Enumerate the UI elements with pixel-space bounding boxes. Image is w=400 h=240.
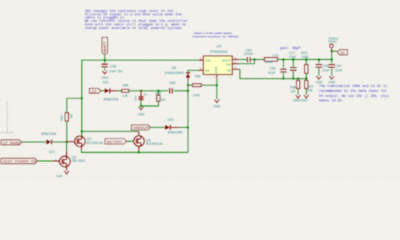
svg-text:SW: SW	[226, 63, 231, 67]
svg-text:1N5819WS: 1N5819WS	[164, 70, 184, 75]
svg-text:10uF 25V: 10uF 25V	[109, 70, 124, 74]
svg-text:R56: R56	[195, 74, 201, 78]
svg-text:GND: GND	[214, 66, 218, 74]
svg-text:22k: 22k	[290, 90, 296, 94]
svg-text:C66: C66	[323, 64, 329, 68]
svg-text:GNDGND: GNDGND	[293, 98, 308, 102]
svg-text:B5819W: B5819W	[168, 130, 183, 135]
svg-text:KEEP_POWER_ON: KEEP_POWER_ON	[3, 160, 37, 164]
svg-text:CP: CP	[92, 89, 98, 93]
svg-text:R65: R65	[122, 83, 128, 87]
svg-text:2N7002: 2N7002	[72, 158, 86, 163]
svg-text:1M: 1M	[161, 98, 166, 102]
svg-text:CB2: CB2	[169, 81, 176, 85]
svg-text:GND: GND	[315, 81, 323, 85]
svg-text:The combination 100k and 13.3k: The combination 100k and 13.3k is	[319, 84, 387, 89]
svg-text:AO3401A: AO3401A	[146, 141, 163, 146]
svg-text:3.3K: 3.3K	[122, 94, 129, 98]
svg-text:47pF: 47pF	[268, 71, 276, 75]
svg-text:+BATT: +BATT	[102, 41, 107, 54]
svg-text:GND: GND	[56, 174, 64, 178]
svg-text:100K: 100K	[193, 94, 201, 98]
svg-text:D21: D21	[49, 150, 55, 154]
svg-text:100k: 100k	[301, 55, 309, 59]
svg-text:5V output. We use 22k || 33k,: 5V output. We use 22k || 33k, this	[319, 94, 389, 99]
svg-text:WAKEUP: WAKEUP	[133, 126, 149, 130]
svg-text:Z5: Z5	[144, 92, 148, 96]
svg-text:D22: D22	[134, 95, 138, 101]
svg-text:1M: 1M	[70, 114, 74, 119]
svg-text:C68: C68	[269, 66, 275, 70]
svg-text:(Catphish's stepdown, 3A, 400k: (Catphish's stepdown, 3A, 400kHz)	[192, 35, 239, 39]
svg-text:100nF: 100nF	[244, 52, 254, 56]
svg-text:L13: L13	[273, 54, 279, 58]
svg-text:makes 13.2k.: makes 13.2k.	[319, 99, 344, 104]
svg-text:R67: R67	[156, 92, 162, 96]
svg-text:GND: GND	[138, 112, 146, 116]
svg-text:22uF: 22uF	[335, 68, 343, 72]
svg-text:22uF: 22uF	[322, 68, 330, 72]
svg-text:EN: EN	[205, 68, 209, 72]
svg-text:TPRV: TPRV	[328, 40, 338, 44]
svg-text:33k: 33k	[307, 89, 313, 93]
svg-text:5V: 5V	[340, 51, 345, 55]
svg-text:22pF: 22pF	[289, 55, 297, 59]
svg-text:C67: C67	[336, 64, 342, 68]
svg-text:GND: GND	[213, 105, 221, 109]
svg-text:FB: FB	[227, 68, 231, 72]
svg-text:TPS54302: TPS54302	[210, 50, 228, 54]
svg-text:CP_WAKE: CP_WAKE	[3, 141, 21, 145]
svg-text:U4: U4	[216, 45, 221, 49]
svg-text:GND: GND	[328, 81, 336, 85]
svg-text:recommended by the data sheet: recommended by the data sheet for	[319, 89, 387, 94]
svg-text:R64: R64	[60, 115, 64, 121]
svg-text:GND: GND	[101, 76, 109, 80]
svg-text:VIN: VIN	[205, 59, 210, 63]
svg-text:AO3401A: AO3401A	[86, 140, 103, 145]
svg-text:charge power available on sola: charge power available on solar powered …	[85, 26, 182, 31]
svg-text:BATTERY: BATTERY	[107, 140, 123, 144]
svg-text:10uH: 10uH	[265, 60, 274, 64]
svg-text:B5819W: B5819W	[104, 97, 119, 102]
svg-text:C65: C65	[110, 64, 116, 68]
svg-text:D20: D20	[102, 81, 108, 85]
svg-text:D19: D19	[168, 118, 174, 122]
svg-text:B5819W: B5819W	[41, 131, 56, 136]
